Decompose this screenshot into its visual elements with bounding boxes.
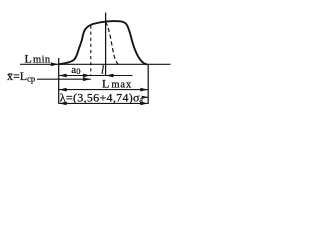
x=Lcp leader line (37, 78, 91, 80)
svg-text:l: l (101, 64, 104, 76)
svg-text:Lmin: Lmin (25, 52, 51, 66)
a0 / l dimension line (59, 75, 133, 77)
arrow left at l dimension (tip at mid vertical) (106, 74, 114, 78)
arrow right after sigma-a (142, 96, 149, 99)
solid distribution curve (59, 21, 148, 64)
short line after sigma-a (142, 96, 148, 98)
arrow right at L max line right end (140, 88, 148, 92)
arrow right at bottom line right end (140, 102, 148, 106)
svg-text:λ=(3,56+4,74)σa: λ=(3,56+4,74)σa (60, 90, 143, 104)
dashed bell right flank (106, 22, 119, 64)
mid vertical line (105, 13, 107, 76)
svg-text:Lmax: Lmax (102, 77, 132, 91)
right boundary vertical (L max line) (147, 64, 149, 104)
arrow left at L max line left end (59, 88, 67, 92)
arrow left at bottom line left end (59, 102, 67, 106)
arrow right at Lcp leader (tip at dashed line) (83, 77, 91, 81)
L max dimension line (59, 89, 149, 91)
left boundary vertical (L min line) (58, 58, 60, 104)
arrow right at a0 line right end (tip at dashed line) (83, 74, 91, 78)
baseline (20, 63, 171, 65)
dashed mean line x=90.7 (90, 26, 92, 76)
arrow left at a0 line left end (59, 74, 67, 78)
bottom lambda dimension line (59, 102, 149, 104)
svg-text:a0: a0 (71, 64, 80, 76)
arrow right at L min (tip at left vertical, on baseline) (51, 62, 59, 66)
